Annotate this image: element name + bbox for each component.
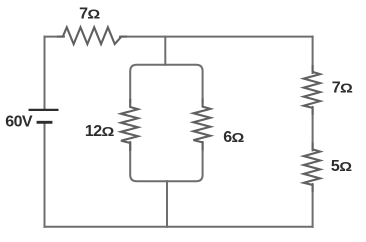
svg-text:12: 12 [85,123,102,140]
svg-text:Ω: Ω [339,160,352,174]
svg-text:Ω: Ω [87,8,100,22]
svg-text:Ω: Ω [102,125,115,139]
svg-text:60V: 60V [5,113,33,130]
svg-text:Ω: Ω [232,132,245,146]
svg-text:Ω: Ω [340,82,353,96]
